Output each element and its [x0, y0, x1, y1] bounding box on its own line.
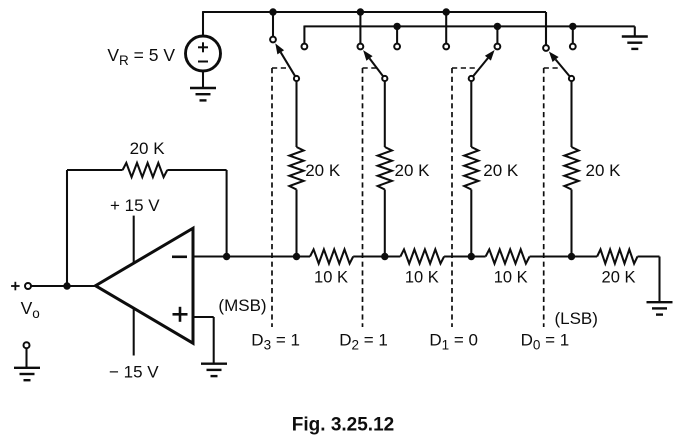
wire VR rail corner drop crossing ground rail: [545, 12, 547, 45]
resistor 20K RF (feedback): [123, 163, 168, 177]
node VR rail junction to switch S3 (D3, MSB): [269, 8, 276, 15]
wire resistor S3 (D3, MSB) to summing rail: [295, 190, 297, 257]
node ground rail junction to switch S1 (D1): [494, 23, 501, 30]
ground (VR source): [190, 87, 216, 89]
node ground rail junction to switch S2 (D2): [393, 23, 400, 30]
wire op-amp output: [31, 285, 96, 287]
node branch D2 junction: [381, 253, 388, 260]
resistor 20K (branch S1 (D1)): [464, 147, 478, 190]
wire resistor S1 (D1) to summing rail: [470, 190, 472, 257]
wire rail R2-R3: [444, 255, 486, 257]
switch S3 (D3, MSB) lever arrow: [281, 52, 296, 76]
node branch D0 junction: [568, 253, 575, 260]
wire source to ground: [202, 71, 204, 88]
svg-text:10 K: 10 K: [314, 268, 348, 286]
svg-text:D2 = 1: D2 = 1: [339, 330, 388, 352]
svg-text:+ 15 V: + 15 V: [110, 196, 160, 215]
wire feedback right leg: [226, 170, 228, 257]
switch S2 (D2) pole: [382, 76, 387, 81]
svg-text:Vo: Vo: [21, 298, 40, 321]
resistor 10K R2: [400, 249, 444, 263]
wire rail right end to ground: [638, 255, 660, 257]
svg-text:VR = 5 V: VR = 5 V: [107, 45, 175, 68]
wire feedback right top segment: [167, 169, 226, 171]
op-amp inverting input marker (-): [172, 255, 187, 258]
switch S0 (D0, LSB) contact ground: [570, 44, 576, 50]
node branch D3 junction: [293, 253, 300, 260]
switch S0 (D0, LSB) pole: [569, 76, 574, 81]
switch S0 (D0, LSB) contact VR: [543, 45, 549, 51]
node branch D1 junction: [468, 253, 475, 260]
wire +15V supply: [133, 216, 135, 263]
svg-text:(MSB): (MSB): [218, 296, 266, 315]
wire VR top rail (node VR to switch contacts): [203, 11, 546, 13]
switch S2 (D2) contact ground: [394, 44, 400, 50]
svg-text:20 K: 20 K: [130, 139, 166, 158]
resistor 10K R3: [486, 249, 530, 263]
wire summing rail segment (op-amp inverting input): [193, 255, 310, 257]
terminal output return: [24, 342, 30, 348]
switch S3 (D3, MSB) contact ground: [302, 44, 308, 50]
switch S2 (D2) lever arrow: [370, 58, 384, 76]
ground (right end of ground rail): [622, 35, 648, 37]
dashed switch boundary (S2 (D2)): [362, 68, 364, 327]
svg-text:20 K: 20 K: [602, 268, 636, 286]
wire rail R3-R4: [530, 255, 598, 257]
label + (output polarity): [11, 285, 20, 287]
svg-text:20 K: 20 K: [483, 161, 519, 180]
wire ground rail right drop: [634, 26, 636, 36]
wire VR rail right drop to S0 contact: [545, 12, 547, 45]
switch S1 (D1) contact VR: [443, 44, 449, 50]
svg-text:D0 = 1: D0 = 1: [521, 330, 570, 352]
wire resistor S0 (D0, LSB) to summing rail: [570, 190, 572, 257]
switch S2 (D2) contact VR: [358, 44, 364, 50]
svg-text:D3 = 1: D3 = 1: [251, 330, 300, 352]
wire pole of S3 (D3, MSB) to resistor: [295, 81, 297, 147]
switch S1 (D1) lever arrow: [473, 58, 488, 76]
resistor 20K (branch S2 (D2)): [378, 147, 392, 190]
svg-text:D1 = 0: D1 = 0: [429, 330, 478, 352]
wire pole of S0 (D0, LSB) to resistor: [570, 81, 572, 147]
node VR rail junction to switch S2 (D2): [357, 8, 364, 15]
resistor 20K (branch S3 (D3, MSB)): [289, 147, 303, 190]
wire pole of S2 (D2) to resistor: [384, 81, 386, 147]
wire resistor S2 (D2) to summing rail: [384, 190, 386, 257]
switch S1 (D1) contact ground: [495, 44, 501, 50]
voltage source VR (5 V): [186, 36, 221, 71]
switch S1 (D1) pole: [469, 76, 474, 81]
svg-text:20 K: 20 K: [395, 161, 431, 180]
wire -15V supply: [133, 309, 135, 356]
dashed switch boundary (S0 (D0, LSB)): [543, 68, 545, 327]
op-amp non-inverting input marker (+): [173, 313, 188, 316]
resistor 20K (branch S0 (D0, LSB)): [564, 147, 578, 190]
node feedback junction: [223, 253, 230, 260]
svg-text:10 K: 10 K: [494, 268, 528, 286]
wire ground rail: [304, 25, 634, 27]
terminal Vo (+): [25, 283, 31, 289]
wire rail R1-R2: [353, 255, 400, 257]
ground (terminating resistor): [647, 301, 673, 303]
svg-text:Fig. 3.25.12: Fig. 3.25.12: [292, 414, 394, 435]
ground (op-amp + input): [201, 363, 227, 365]
wire output return to ground: [25, 348, 27, 367]
dashed switch boundary (S3 (D3, MSB)): [271, 68, 273, 327]
switch S3 (D3, MSB) pole: [294, 76, 299, 81]
wire pole of S1 (D1) to resistor: [470, 81, 472, 147]
node output feedback junction: [63, 282, 70, 289]
dashed switch boundary (S1 (D1)): [451, 68, 453, 327]
wire VR rail left drop to source: [202, 11, 204, 36]
switch S3 (D3, MSB) contact VR: [270, 37, 276, 43]
resistor 10K R1: [310, 249, 353, 263]
svg-text:− 15 V: − 15 V: [109, 363, 159, 382]
op-amp U1 (triangle): [96, 228, 194, 343]
wire op-amp + input to ground: [193, 316, 214, 318]
svg-text:20 K: 20 K: [305, 161, 341, 180]
svg-text:(LSB): (LSB): [554, 309, 597, 328]
wire ground rail left drop to S3 contact: [303, 26, 305, 44]
switch S0 (D0, LSB) lever arrow: [556, 60, 570, 77]
node ground rail junction to switch S0 (D0, LSB): [569, 23, 576, 30]
node VR rail junction to switch S1 (D1): [443, 8, 450, 15]
ground (output return): [14, 367, 40, 369]
wire feedback top left segment: [67, 169, 123, 171]
svg-text:20 K: 20 K: [586, 161, 622, 180]
svg-text:10 K: 10 K: [405, 268, 439, 286]
resistor 20K R4 (terminating): [597, 249, 637, 263]
